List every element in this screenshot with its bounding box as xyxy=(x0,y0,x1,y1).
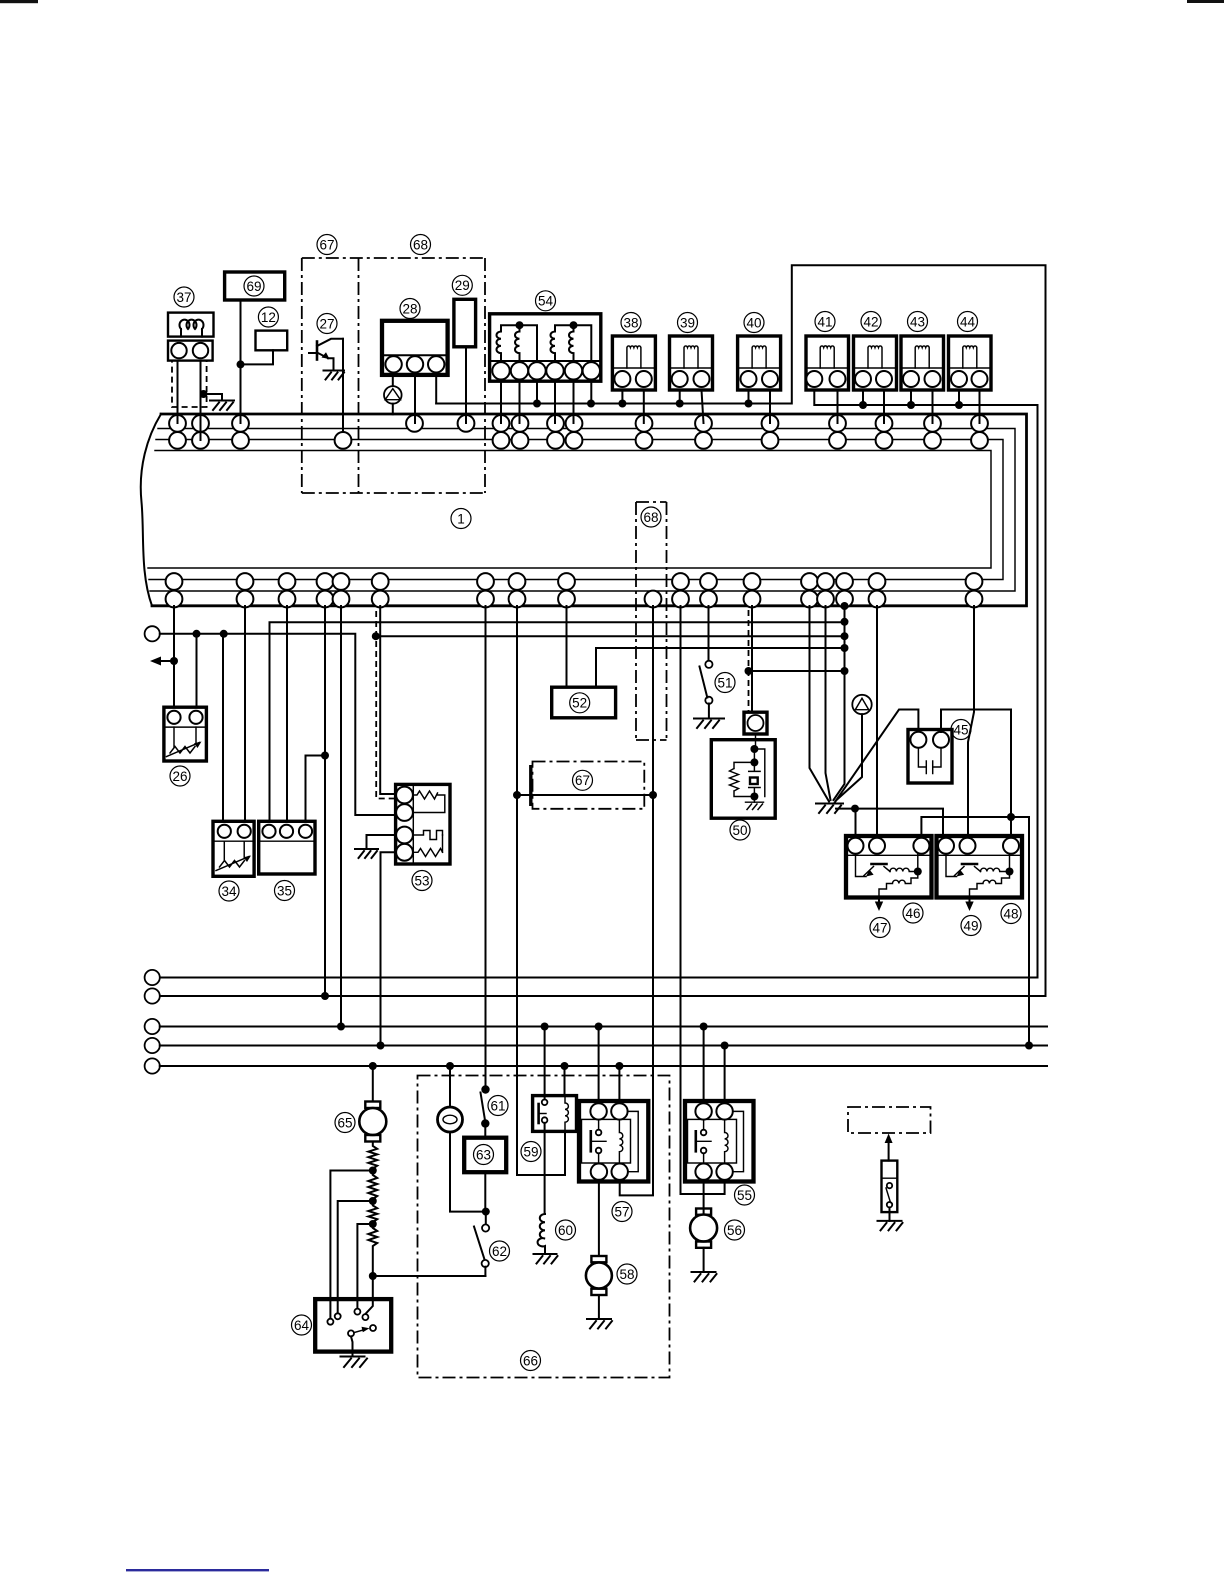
wire rail E to blower motor 65 xyxy=(372,1066,374,1102)
junctions on rail C xyxy=(541,1023,708,1031)
svg-text:28: 28 xyxy=(402,301,417,316)
label 67 lower xyxy=(573,770,593,790)
wire warning symbol to ground fan xyxy=(836,714,862,800)
switch 62 xyxy=(474,1224,489,1276)
junction node 1212 xyxy=(482,1208,490,1216)
svg-text:46: 46 xyxy=(905,906,920,921)
power rail C xyxy=(160,1026,1047,1028)
label 28 xyxy=(400,299,420,319)
power rail E xyxy=(160,1065,1047,1067)
connector of 37 xyxy=(168,341,213,361)
label 57 xyxy=(612,1202,632,1222)
dash-dot boundary box 68 lower xyxy=(636,502,667,740)
svg-text:60: 60 xyxy=(558,1223,573,1238)
relay 43 xyxy=(901,336,944,390)
junction bus outer ring tap xyxy=(841,602,849,610)
wire relay 39 pins xyxy=(680,390,704,423)
wire rail E to relay 57 pin2 xyxy=(618,1066,620,1103)
junction on rail C xyxy=(337,1023,345,1031)
connector strip line of 28 xyxy=(382,354,448,356)
svg-text:34: 34 xyxy=(221,884,237,899)
junction on 37 ground stub xyxy=(200,390,208,398)
page mark top-right xyxy=(1187,0,1224,3)
main harness bus 1 ring 4 xyxy=(148,451,991,569)
junctions on rail 634 xyxy=(193,630,228,638)
wire 27 collector to bus xyxy=(342,339,344,432)
inhibitor switch unit xyxy=(882,1161,898,1213)
wire bus to node 795 and relay 59 loop xyxy=(517,606,565,1175)
blower resistor chain xyxy=(368,1142,377,1277)
svg-text:66: 66 xyxy=(523,1353,538,1368)
wire bus to switch 35 middle xyxy=(286,606,288,821)
open connector rail C left end xyxy=(145,1019,160,1034)
switch 61 lower contact junction xyxy=(481,1119,489,1127)
ignition coil 37 coil box xyxy=(168,313,214,337)
label 52 xyxy=(570,693,590,713)
label 61 xyxy=(488,1096,508,1116)
bus 1 bottom connector circles row 4 xyxy=(166,591,983,608)
svg-text:59: 59 xyxy=(523,1144,538,1159)
relay 57 xyxy=(579,1101,648,1182)
bus 1 bottom connector circles row 3 xyxy=(166,573,983,590)
dashed wire to unit 53 pin1 xyxy=(376,611,395,799)
pins of 28 xyxy=(385,356,444,372)
wire 29 to bus xyxy=(465,347,467,423)
ground of transistor 27 xyxy=(324,371,345,380)
label 69 xyxy=(244,276,264,296)
page footer blue rule xyxy=(126,1569,269,1571)
blower motor 65 xyxy=(359,1102,386,1142)
page mark top-left xyxy=(0,0,38,3)
svg-text:62: 62 xyxy=(492,1244,507,1259)
spark plug dashed boot of 37 xyxy=(172,361,207,407)
switch 51 xyxy=(700,661,713,719)
wire switch unit to ground xyxy=(889,1207,891,1221)
wire net 817 to relays 46 48 and rail D xyxy=(921,817,1029,1046)
label 38 xyxy=(621,313,641,333)
junction net 817 to rail D xyxy=(1025,1042,1033,1050)
wire node to switch 62 top xyxy=(485,1212,487,1225)
relay 38 xyxy=(612,336,655,390)
label 41 xyxy=(815,312,835,332)
svg-text:39: 39 xyxy=(680,315,695,330)
wire bus chain to switch 61 xyxy=(481,1085,489,1093)
distribution rail 671 xyxy=(749,670,845,672)
label 48 xyxy=(1001,904,1021,924)
engine control module 28 xyxy=(382,321,448,375)
wire bus to sensor 34 right xyxy=(244,606,246,821)
svg-text:52: 52 xyxy=(572,696,587,711)
svg-text:12: 12 xyxy=(261,310,276,325)
label 64 xyxy=(292,1315,312,1335)
label 50 xyxy=(730,820,750,840)
wire bus to relay 48 pin2 xyxy=(968,606,974,836)
svg-text:68: 68 xyxy=(643,510,658,525)
svg-text:56: 56 xyxy=(727,1223,742,1238)
wire 35 right pin to node xyxy=(306,756,326,822)
distribution rail 648 from 52 xyxy=(596,648,845,687)
label 53 xyxy=(412,871,432,891)
svg-text:27: 27 xyxy=(319,316,334,331)
dashed wire to horn unit xyxy=(748,610,750,712)
wire ground node to relay 48 pin1 xyxy=(836,809,943,836)
junction 35 tap xyxy=(321,752,329,760)
junction of 12 wire on 69 wire xyxy=(237,360,245,368)
main harness bus 1 ring 3 xyxy=(149,440,1003,580)
svg-text:48: 48 xyxy=(1003,906,1018,921)
transistor 27 xyxy=(309,339,343,371)
coil group 1 of 54 xyxy=(497,325,538,361)
wire motor 58 to ground xyxy=(598,1295,600,1319)
svg-text:42: 42 xyxy=(863,314,878,329)
wire relay 46 pin1 to ground node xyxy=(855,809,857,836)
wire condenser 45 right to node 817 xyxy=(941,710,1011,837)
svg-text:51: 51 xyxy=(717,675,732,690)
junction coil group 2 xyxy=(570,321,578,329)
wire bus to ground fan 1 xyxy=(810,606,830,802)
power rail D xyxy=(160,1045,1047,1047)
resistor tap wire 1 to switch 64 xyxy=(330,1171,372,1319)
relay 39 xyxy=(670,336,713,390)
main harness bus 1 outer ring xyxy=(152,414,1027,606)
junction blower low node xyxy=(369,1272,377,1280)
wire 28 middle pin to bus xyxy=(414,375,416,423)
svg-text:69: 69 xyxy=(246,279,261,294)
relay 40 xyxy=(738,336,781,390)
svg-text:57: 57 xyxy=(614,1204,629,1219)
wire relay 41 right pin xyxy=(837,390,839,423)
wire rail 634 to sensor 34 left xyxy=(222,634,224,822)
wire bus to ecu box 52 xyxy=(566,606,568,687)
pins of 54 xyxy=(492,362,600,379)
wire node into switch 64 xyxy=(365,1276,372,1314)
wire relay 40 pins xyxy=(749,390,771,423)
label 46 xyxy=(903,903,923,923)
svg-text:1: 1 xyxy=(457,511,465,526)
wire rail E to lamp xyxy=(449,1066,451,1107)
junction on rail D for 55 xyxy=(721,1042,729,1050)
wire rail D to relay 55 pin2 xyxy=(724,1046,726,1104)
wire 28 right pin joins supply rail xyxy=(435,375,437,404)
wire 69 to bus xyxy=(240,300,242,423)
junction rail 648 at feed xyxy=(841,644,849,652)
relay 41 xyxy=(806,336,849,390)
wire rail C to relay 59 contact xyxy=(544,1027,546,1100)
svg-text:67: 67 xyxy=(575,773,590,788)
ground of 58 xyxy=(587,1319,612,1329)
label 47 xyxy=(870,918,890,938)
distribution rail 636 xyxy=(376,635,845,637)
control unit 69 xyxy=(225,272,285,300)
wire rail E to relay 59 coil xyxy=(564,1066,566,1096)
junction rail 671 right xyxy=(841,667,849,675)
ground of 56 xyxy=(692,1272,717,1282)
relay 46 xyxy=(846,836,932,898)
wire bus to relay 57 return loop xyxy=(620,606,653,1195)
wire relay 38 pins xyxy=(622,390,643,423)
distribution rail 622 xyxy=(270,622,845,821)
wire 28 left pin to pump symbol xyxy=(392,375,394,386)
wire bus to unit 53 pin1 solid xyxy=(380,606,395,794)
label 68 lower xyxy=(641,507,661,527)
link rail through box 67 xyxy=(517,794,653,796)
bus 1 top connector circles row 2 xyxy=(169,432,988,449)
relay 55 xyxy=(685,1101,754,1182)
wire bus to sensor 26 left xyxy=(173,606,175,707)
wire relay 43 pins xyxy=(911,390,933,423)
label 12 xyxy=(258,307,278,327)
dash-dot boundary box 66 xyxy=(418,1076,670,1378)
junction rail 671 left xyxy=(745,667,753,675)
svg-text:54: 54 xyxy=(538,294,554,309)
net 817 junction xyxy=(1007,813,1015,821)
svg-text:68: 68 xyxy=(413,237,428,252)
sensor 34 xyxy=(213,821,254,876)
arrow into connector box xyxy=(888,1141,890,1161)
svg-text:38: 38 xyxy=(623,315,638,330)
wire relay 55 to motor 56 xyxy=(703,1180,705,1215)
label 1 harness xyxy=(451,509,471,529)
knock control unit 53 xyxy=(396,784,450,864)
wire 63 to node 1212 xyxy=(484,1172,486,1211)
junction node 795 right xyxy=(649,791,657,799)
label 39 xyxy=(678,313,698,333)
label 60 xyxy=(556,1220,576,1240)
wire pump to bus xyxy=(392,404,394,415)
svg-text:44: 44 xyxy=(960,314,976,329)
svg-text:45: 45 xyxy=(953,722,968,737)
label 35 xyxy=(275,881,295,901)
supply rail under relays with loop over 41-44 to rail B xyxy=(160,265,1046,996)
label 29 xyxy=(452,275,472,295)
label 62 xyxy=(490,1241,510,1261)
label 37 xyxy=(174,287,194,307)
junction rail 661 xyxy=(170,657,178,665)
dash-dot boundary boxes 67 and 68 (upper) xyxy=(302,258,485,493)
relay 59 xyxy=(533,1096,577,1132)
open connector rail A left end xyxy=(145,970,160,985)
ground of 64 xyxy=(341,1357,368,1368)
resistor coil 60 xyxy=(538,1214,545,1254)
svg-text:47: 47 xyxy=(872,920,887,935)
wire bus to ground fan 3 with rail taps xyxy=(834,606,845,800)
relay 44 xyxy=(949,336,992,390)
ground of 51 xyxy=(694,719,724,729)
junction node 795 left xyxy=(513,791,521,799)
dash-dot connector box right xyxy=(848,1107,931,1133)
wire bus to relay 55 return loop xyxy=(681,606,725,1194)
label 51 xyxy=(715,673,735,693)
svg-text:67: 67 xyxy=(319,237,334,252)
label 44 xyxy=(958,312,978,332)
junctions on supply rail xyxy=(533,400,753,408)
ground of switch unit xyxy=(878,1221,903,1231)
svg-text:55: 55 xyxy=(737,1188,752,1203)
ground stub of 37 xyxy=(201,394,223,401)
label 43 xyxy=(908,312,928,332)
wire rail C to relay 57 pin1 xyxy=(598,1027,600,1104)
svg-text:53: 53 xyxy=(414,873,429,888)
svg-text:29: 29 xyxy=(455,278,470,293)
junctions on rail E xyxy=(369,1062,624,1070)
wire rail C to relay 55 pin1 xyxy=(703,1027,705,1104)
open connector rail B left end xyxy=(145,988,160,1003)
resistor block 12 xyxy=(256,331,288,351)
open connector rail E left end xyxy=(145,1058,160,1073)
wire bus to switch 61 chain xyxy=(485,606,487,1090)
label 34 xyxy=(219,881,239,901)
label 56 xyxy=(725,1220,745,1240)
off-page arrow rail 661 xyxy=(156,660,174,662)
distribution rail 634 xyxy=(160,634,396,815)
wire 53 pin4 to rail D xyxy=(381,852,397,1045)
label 26 xyxy=(170,766,190,786)
wire 12 to junction xyxy=(241,350,274,364)
wire lamp to node 1212 xyxy=(450,1132,486,1212)
wire bus to relay 46 pin2 xyxy=(876,606,878,836)
pump symbol under 28 xyxy=(384,386,402,404)
svg-text:50: 50 xyxy=(732,823,747,838)
svg-text:35: 35 xyxy=(277,883,292,898)
wire condenser 45 left to ground fan xyxy=(834,710,918,804)
svg-text:49: 49 xyxy=(963,918,978,933)
wires 54 pins to bus and supply rail xyxy=(501,380,591,424)
label 55 xyxy=(735,1185,755,1205)
noise filter 50 xyxy=(711,734,775,818)
label 42 xyxy=(861,312,881,332)
pump motor 56 xyxy=(690,1209,717,1248)
relay supply rail 41-44 going to rail A xyxy=(160,390,1038,978)
junction on rail B xyxy=(321,992,329,1000)
label 58 xyxy=(617,1264,637,1284)
svg-text:40: 40 xyxy=(746,315,761,330)
wire motor 56 to ground xyxy=(703,1248,705,1272)
dash-dot boundary box 67 lower xyxy=(533,762,645,809)
injector resistor block 54 xyxy=(490,314,601,381)
svg-text:37: 37 xyxy=(176,290,191,305)
wire bus to horn unit solid xyxy=(751,606,753,712)
junction rail 622 at feed xyxy=(841,618,849,626)
resistor tap wire 2 to switch 64 xyxy=(338,1201,373,1313)
open connector left end of rail 634 xyxy=(145,626,160,641)
wire 37 right pin to bus xyxy=(200,361,202,440)
label 27 xyxy=(317,314,337,334)
horn connector symbol xyxy=(744,712,767,734)
wire 53 pin3 to ground xyxy=(367,835,397,849)
ground of 53 xyxy=(355,849,378,858)
label 63 xyxy=(474,1145,494,1165)
svg-text:61: 61 xyxy=(490,1098,505,1113)
warning symbol triangle xyxy=(852,695,871,714)
condenser 45 xyxy=(908,730,952,784)
switch 61 blade xyxy=(481,1093,486,1122)
junction on rail D xyxy=(377,1042,385,1050)
output arrow 47 of relay 46 xyxy=(878,898,880,904)
output arrow 49 of relay 48 xyxy=(969,898,971,904)
coil windings of 37 xyxy=(180,320,204,337)
junction on 45 ground diagonal xyxy=(851,805,859,813)
label 59 xyxy=(521,1142,541,1162)
connector strip line of 54 xyxy=(490,360,601,362)
wire rail 634 to sensor 26 right xyxy=(196,634,198,707)
resistor tap wire 3 to switch 64 xyxy=(357,1224,372,1308)
relay 48 xyxy=(937,836,1023,898)
junctions on rail 636 xyxy=(372,632,849,640)
wire relay 57 to motor 58 xyxy=(598,1180,600,1256)
svg-text:65: 65 xyxy=(337,1115,352,1130)
ground of 37 xyxy=(210,401,234,411)
label 68 upper xyxy=(411,235,431,255)
main harness bus 1 ring 2 xyxy=(150,429,1015,592)
switch unit 35 xyxy=(259,821,315,874)
label 66 xyxy=(521,1351,541,1371)
relay 42 xyxy=(854,336,897,390)
control unit 63 xyxy=(464,1138,506,1173)
svg-text:41: 41 xyxy=(817,314,832,329)
wire bus to switch 51 xyxy=(708,606,710,661)
label 54 xyxy=(536,291,556,311)
wire relay 44 pins xyxy=(959,390,980,423)
bus 1 torn left edge xyxy=(141,414,161,606)
svg-text:26: 26 xyxy=(172,769,187,784)
wire relay 42 pins xyxy=(863,390,884,423)
bus 1 top connector circles row 1 xyxy=(169,415,988,432)
svg-text:43: 43 xyxy=(910,314,925,329)
ground of 60 xyxy=(534,1254,558,1264)
wire 59 contact to coil 60 xyxy=(544,1123,546,1214)
coil group 2 of 54 xyxy=(551,325,592,361)
wire node to switch 62 xyxy=(373,1275,486,1277)
common ground point xyxy=(816,804,843,814)
junctions on 41-44 rail xyxy=(859,401,963,409)
label 65 xyxy=(335,1113,355,1133)
illumination lamp xyxy=(438,1107,463,1132)
connector bar inside 67 xyxy=(529,765,532,806)
open connector rail D left end xyxy=(145,1038,160,1053)
washer motor 58 xyxy=(586,1256,612,1295)
connector pins of 37 xyxy=(171,343,208,358)
wire 37 left pin to bus xyxy=(177,361,179,423)
svg-text:63: 63 xyxy=(476,1147,491,1162)
label 67 upper xyxy=(317,235,337,255)
label 49 xyxy=(961,916,981,936)
coolant sensor 26 xyxy=(164,707,207,761)
wire bus to rail C xyxy=(340,606,342,1027)
wire bus to rail B xyxy=(324,606,326,996)
wire switch 61 to unit 63 xyxy=(484,1124,486,1138)
wire bus to ground fan 2 xyxy=(826,606,831,800)
svg-text:64: 64 xyxy=(294,1318,310,1333)
svg-text:58: 58 xyxy=(619,1267,634,1282)
junction coil group 1 xyxy=(516,321,524,329)
ecu box 52 xyxy=(552,687,616,718)
fan switch 64 xyxy=(315,1299,391,1356)
resistor pack 29 xyxy=(454,299,476,347)
label 40 xyxy=(744,313,764,333)
label 45 xyxy=(951,720,971,740)
